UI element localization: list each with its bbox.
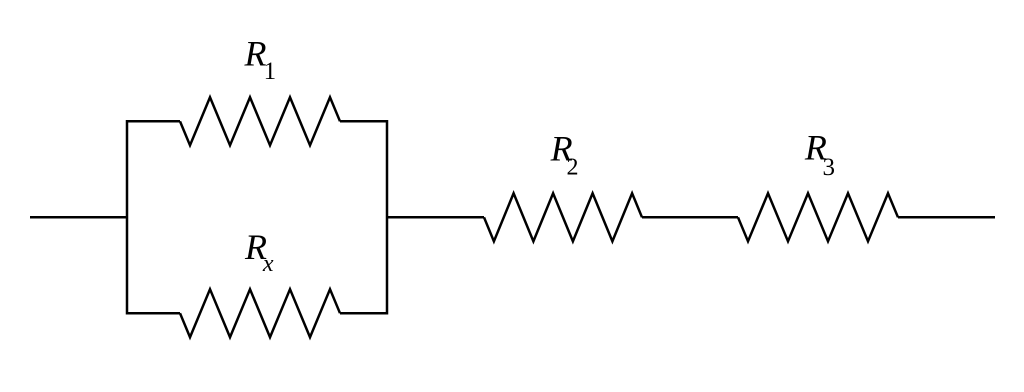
resistor R3: [738, 193, 898, 241]
label Rx: [244, 227, 274, 277]
svg-text:x: x: [262, 251, 274, 277]
wire left lead: [30, 216, 127, 219]
wire R1 to top-right corner: [340, 120, 387, 123]
wire parallel-box right vertical: [386, 120, 389, 314]
wire Rx to bottom-right corner: [340, 312, 387, 315]
label R3: [804, 128, 835, 181]
svg-text:3: 3: [823, 154, 836, 181]
wire right lead: [898, 216, 995, 219]
resistor R1: [180, 97, 340, 145]
wire top-left to R1: [127, 120, 180, 123]
wire parallel-box left vertical: [126, 120, 129, 314]
svg-text:2: 2: [567, 155, 579, 181]
resistor Rx: [180, 289, 340, 337]
svg-text:1: 1: [264, 58, 277, 85]
wire bottom-left to Rx: [127, 312, 180, 315]
resistor R2: [484, 193, 642, 241]
wire R2 to R3: [642, 216, 738, 219]
label R1: [244, 33, 277, 85]
label R2: [550, 128, 579, 180]
wire node B to R2: [387, 216, 484, 219]
